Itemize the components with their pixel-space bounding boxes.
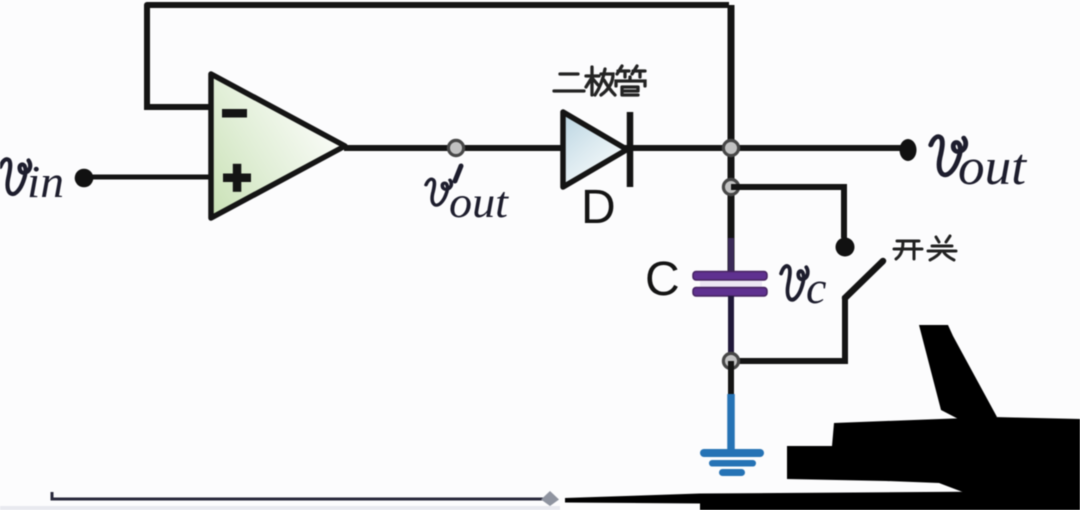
capacitor C bottom plate xyxy=(693,288,767,297)
node: v_out terminal dot xyxy=(900,139,917,161)
bottom slider line xyxy=(52,492,553,499)
svg-text:out: out xyxy=(958,139,1028,196)
开 xyxy=(894,241,922,259)
wire: stub below ground junction xyxy=(728,361,734,396)
switch blade (open) xyxy=(845,261,883,298)
wire: switch bottom branch xyxy=(731,296,845,361)
capacitor dielectric tint xyxy=(700,281,762,287)
极 xyxy=(586,67,599,95)
svg-text:in: in xyxy=(27,156,64,207)
label v'_out xyxy=(426,179,451,205)
diode D xyxy=(563,112,627,187)
switch fixed contact dot xyxy=(836,238,855,257)
关 xyxy=(928,236,956,260)
node: ground junction xyxy=(723,353,738,368)
wire: blue ground lead xyxy=(727,394,735,451)
black redaction: horizontal band xyxy=(787,417,1080,510)
ground symbol xyxy=(700,449,764,476)
black redaction: diagonal arm xyxy=(919,325,997,424)
op-amp U1 xyxy=(211,74,345,218)
node: junction at output rail / right vertical xyxy=(723,140,738,155)
管 xyxy=(617,66,645,77)
capacitor C lead (purple tint above plate) xyxy=(728,238,734,272)
wire: right vertical from top to capacitor xyxy=(728,5,735,272)
svg-text:D: D xyxy=(581,181,616,234)
label v_out xyxy=(931,137,966,175)
label 二极管 (diode) xyxy=(554,66,645,95)
capacitor C top plate xyxy=(693,272,767,281)
op-amp plus sign xyxy=(223,174,251,183)
diode D cathode bar xyxy=(627,112,634,187)
svg-text:c: c xyxy=(806,262,826,313)
svg-text:out: out xyxy=(449,178,510,227)
wire: switch branch top xyxy=(731,187,844,238)
label v_c xyxy=(781,266,808,300)
label v_in xyxy=(0,159,30,194)
wire: v_in to non-inverting input xyxy=(84,175,213,180)
wire: feedback into inverting input xyxy=(144,104,213,110)
node: v'_out junction xyxy=(448,140,463,155)
二 xyxy=(554,74,584,91)
label 开关 (switch) xyxy=(894,236,956,260)
op-amp minus sign xyxy=(222,109,247,118)
black redaction: bottom strip xyxy=(565,491,1080,510)
wire: main output rail xyxy=(344,145,908,151)
svg-text:C: C xyxy=(645,253,680,306)
node: v_in terminal dot xyxy=(75,169,94,188)
wire: feedback loop top xyxy=(147,5,729,110)
slider diamond handle xyxy=(541,491,559,506)
capacitor bottom lead xyxy=(728,296,734,361)
node: junction to switch branch xyxy=(723,179,738,194)
